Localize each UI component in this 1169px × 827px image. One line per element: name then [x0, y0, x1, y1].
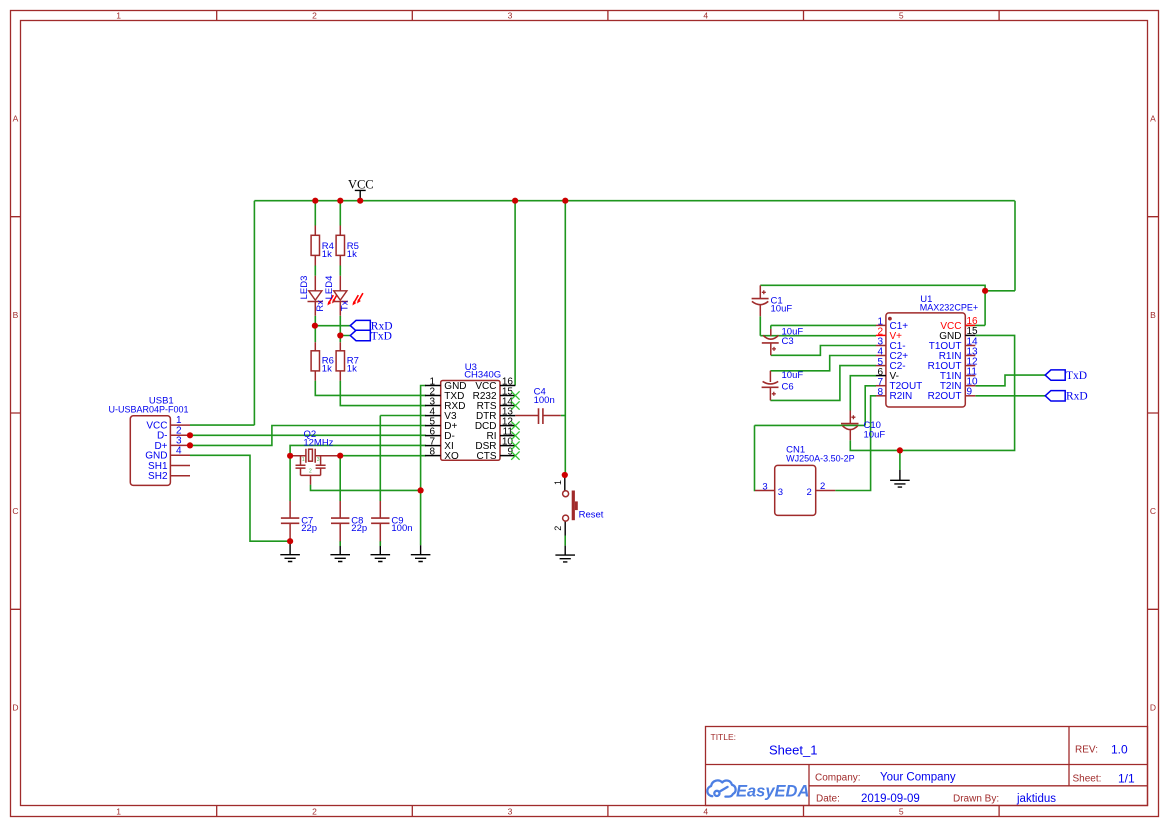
wire U1 pin15 GND loop to ground [900, 335, 1015, 450]
svg-text:XO: XO [444, 451, 459, 462]
svg-text:3: 3 [508, 806, 513, 816]
svg-text:EasyEDA: EasyEDA [736, 783, 809, 801]
wire VCC bus to USB1 VCC [190, 201, 254, 425]
crystal Q2 12MHz [290, 449, 340, 485]
wire C6 top to U1 pin4 C2+ [770, 356, 876, 371]
svg-text:22p: 22p [301, 523, 317, 534]
svg-text:3: 3 [508, 10, 513, 20]
wire reset button to ground [564, 536, 566, 546]
svg-text:TITLE:: TITLE: [711, 732, 737, 742]
svg-text:CH340G: CH340G [464, 370, 501, 381]
wire crystal pin3 to U3 pin8 XO [340, 455, 426, 457]
svg-text:MAX232CPE+: MAX232CPE+ [920, 302, 978, 312]
svg-text:A: A [1150, 114, 1156, 124]
no-connect flags U3 right pins [511, 391, 519, 460]
svg-text:CTS: CTS [477, 451, 497, 462]
ground under reset button [555, 546, 575, 562]
svg-text:22p: 22p [351, 523, 367, 534]
wire U3 pin1 GND down [421, 386, 426, 546]
wire C3 top to U1 pin1 C1+ [771, 325, 876, 329]
wire U1 pin6 V- to C10 [850, 376, 876, 411]
wire LED3 to RxD flag and R6 [315, 316, 350, 343]
svg-text:TxD: TxD [371, 330, 392, 342]
svg-text:5: 5 [899, 10, 904, 20]
connector CN1 WJ250A-3.50-2P [755, 444, 855, 515]
svg-text:4: 4 [703, 10, 708, 20]
IC U3 CH340G [425, 362, 515, 462]
svg-text:U-USBAR04P-F001: U-USBAR04P-F001 [108, 405, 188, 415]
svg-text:10uF: 10uF [771, 303, 793, 314]
wire crystal pin1 to C7 [289, 456, 291, 501]
net flag TxD left [350, 330, 392, 342]
svg-text:Your Company: Your Company [880, 772, 956, 784]
VCC power symbol [348, 177, 374, 200]
wire crystal pin3 to C8 [339, 456, 341, 501]
svg-text:2: 2 [820, 481, 825, 492]
svg-text:9: 9 [967, 387, 973, 398]
svg-text:REV:: REV: [1075, 745, 1098, 756]
wire crystal pin2 to ground net [311, 485, 421, 491]
capacitor C10 10uF [841, 411, 885, 441]
svg-text:8: 8 [429, 446, 435, 457]
svg-text:R2OUT: R2OUT [928, 391, 962, 402]
svg-text:4: 4 [703, 806, 708, 816]
svg-text:1k: 1k [347, 363, 357, 374]
svg-text:1.0: 1.0 [1111, 743, 1128, 757]
svg-text:jaktidus: jaktidus [1016, 793, 1056, 805]
svg-text:1k: 1k [322, 249, 332, 260]
svg-text:Rx: Rx [315, 300, 326, 312]
wire C3 bottom to U1 pin3 C1- [771, 346, 876, 356]
wire C9 to ground [379, 541, 381, 546]
svg-text:Sheet_1: Sheet_1 [769, 743, 817, 758]
wire LED4 to TxD flag and R7 [340, 316, 350, 343]
svg-text:C: C [12, 506, 18, 516]
wire U1 pin8 R2IN to CN1 pin2 [835, 396, 876, 491]
svg-text:1k: 1k [322, 363, 332, 374]
wire VCC bus to R4 [314, 201, 316, 226]
svg-text:LED4: LED4 [324, 276, 335, 300]
svg-text:4: 4 [176, 445, 182, 456]
svg-text:R2IN: R2IN [890, 391, 913, 402]
net flag TxD right [1045, 370, 1087, 382]
connector USB1 U-USBAR04P-F001 [108, 395, 190, 485]
wire C8 to ground [339, 541, 341, 546]
svg-text:2: 2 [312, 10, 317, 20]
wire VCC bus [254, 200, 1014, 202]
svg-text:1: 1 [116, 10, 121, 20]
svg-text:Sheet:: Sheet: [1073, 774, 1102, 785]
resistor R7 [336, 342, 359, 380]
net flag RxD left [350, 320, 392, 332]
EasyEDA logo [707, 780, 735, 796]
ground near U1 [890, 470, 910, 487]
svg-text:100n: 100n [534, 395, 555, 406]
ground on U3 GND net [411, 545, 431, 561]
capacitor C6 10uF [762, 370, 804, 400]
wire C6 bottom to U1 pin5 C2- [770, 366, 876, 401]
svg-text:RxD: RxD [1066, 391, 1088, 403]
svg-text:Company:: Company: [815, 773, 861, 784]
resistor R5 [336, 226, 359, 266]
resistor R6 [311, 342, 334, 380]
svg-text:1/1: 1/1 [1118, 772, 1135, 786]
svg-text:3: 3 [778, 487, 783, 498]
svg-text:3: 3 [762, 481, 767, 492]
svg-text:1k: 1k [347, 249, 357, 260]
resistor R4 [311, 226, 334, 266]
svg-text:2019-09-09: 2019-09-09 [861, 793, 920, 805]
svg-text:C: C [1150, 506, 1156, 516]
capacitor C7 [281, 501, 317, 541]
svg-text:VCC: VCC [348, 177, 374, 191]
svg-text:C3: C3 [782, 336, 794, 347]
wire crystal pin1 to U3 pin7 XI [290, 445, 426, 455]
LED LED3 [299, 276, 338, 316]
svg-text:SH2: SH2 [148, 471, 168, 482]
wire R6 to U3 pin2 TXD [315, 381, 426, 396]
wire USB D- to U3 pin6 [190, 434, 426, 436]
svg-text:D: D [12, 702, 18, 712]
IC U1 MAX232CPE+ [876, 294, 978, 407]
title block [706, 727, 1148, 806]
wire R5 to LED4 [339, 266, 341, 276]
svg-text:2: 2 [312, 806, 317, 816]
svg-text:100n: 100n [391, 523, 412, 534]
svg-text:LED3: LED3 [299, 276, 310, 300]
pushbutton Reset [553, 475, 604, 536]
wire R4 to LED3 [314, 266, 316, 276]
wire U1 pin10 T2IN to TxD flag [975, 375, 1045, 386]
svg-text:1: 1 [116, 806, 121, 816]
wire C1 top to U1 pin16 and VCC riser [760, 201, 1015, 326]
ground under C8 [330, 546, 350, 562]
svg-text:C6: C6 [782, 382, 794, 393]
wire C10 bottom to ground junction [850, 440, 900, 450]
capacitor C8 [331, 501, 367, 541]
svg-text:1: 1 [553, 480, 563, 485]
svg-text:B: B [13, 310, 19, 320]
wire C4 to reset net [561, 415, 566, 417]
wire VCC bus to C4/reset [564, 201, 566, 475]
svg-text:2: 2 [807, 487, 812, 498]
svg-text:D: D [1150, 702, 1156, 712]
svg-text:2: 2 [309, 468, 312, 474]
wire C1 bottom to U1 pin2 V+ [760, 316, 876, 335]
svg-text:3: 3 [317, 457, 320, 463]
svg-text:Drawn By:: Drawn By: [953, 794, 999, 805]
svg-text:A: A [13, 114, 19, 124]
wire ground stem near U1 [899, 450, 901, 470]
LED LED4 [324, 276, 363, 316]
wire U3 pin4 V3 to C9 [380, 416, 426, 502]
svg-text:Date:: Date: [816, 794, 840, 805]
svg-text:TxD: TxD [1066, 370, 1087, 382]
wire USB D+ to U3 pin5 [190, 426, 426, 446]
svg-text:2: 2 [553, 526, 563, 531]
wire VCC bus to R5 [339, 201, 341, 226]
ground under C9 [371, 546, 391, 562]
ground under C7 [280, 541, 300, 561]
svg-text:12MHz: 12MHz [303, 438, 333, 449]
svg-text:10uF: 10uF [864, 430, 886, 441]
svg-text:Tx: Tx [339, 300, 350, 311]
wire USB GND to C7 [190, 455, 290, 541]
svg-text:WJ250A-3.50-2P: WJ250A-3.50-2P [786, 453, 855, 463]
wire VCC bus to U3 pin16 [514, 201, 516, 386]
svg-text:8: 8 [877, 387, 883, 398]
capacitor C3 10uF [762, 327, 804, 356]
capacitor C4 100n [515, 387, 561, 425]
svg-text:5: 5 [899, 806, 904, 816]
svg-text:10uF: 10uF [782, 370, 804, 381]
capacitor C1 10uF [752, 285, 793, 316]
svg-text:B: B [1150, 310, 1156, 320]
wire U1 pin9 R2OUT to RxD flag [975, 395, 1045, 397]
wire U1 pin7 T2OUT to CN1 pin3 [755, 386, 877, 491]
svg-text:Reset: Reset [579, 509, 604, 520]
capacitor C9 [371, 501, 412, 541]
wire R7 to U3 pin3 RXD [340, 381, 426, 406]
svg-text:1: 1 [302, 457, 305, 463]
net flag RxD right [1045, 391, 1088, 403]
